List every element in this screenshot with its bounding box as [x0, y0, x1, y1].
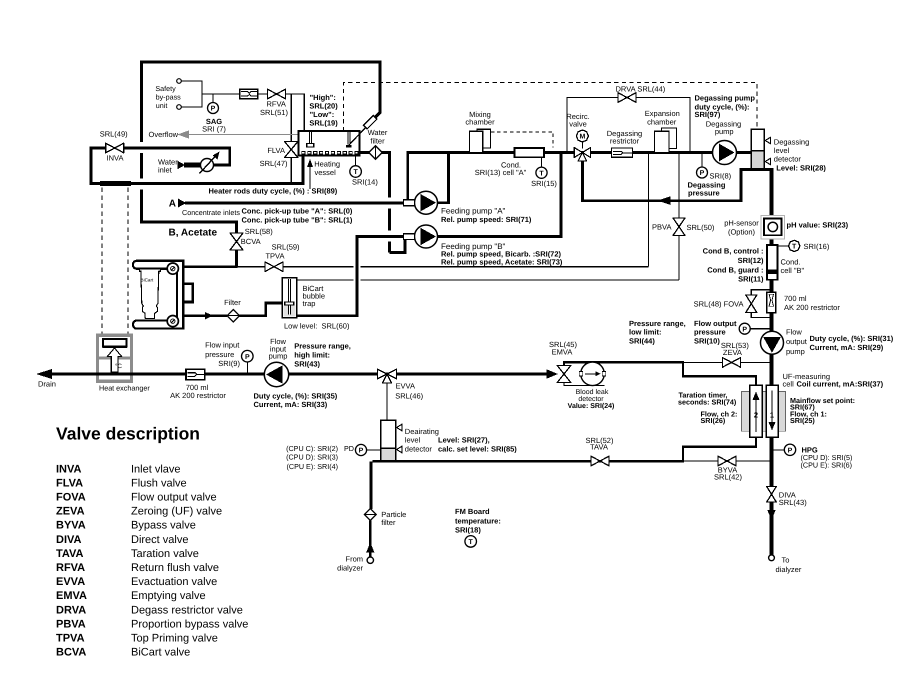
- svg-text:Rel. pump speed: SRI(71): Rel. pump speed: SRI(71): [441, 215, 532, 224]
- svg-text:EVVA: EVVA: [56, 576, 85, 588]
- label: duty cycle SRI(35) current SRI(33): [254, 392, 338, 409]
- restrictor (safety bypass): [240, 89, 258, 99]
- svg-text:Taration valve: Taration valve: [131, 548, 199, 560]
- dashed link lines to heat exchanger: [102, 188, 128, 335]
- svg-text:SRL(47): SRL(47): [260, 159, 288, 168]
- svg-text:Blood leak: Blood leak: [576, 388, 609, 396]
- svg-text:Valve description: Valve description: [56, 424, 200, 444]
- svg-text:TAVA: TAVA: [56, 548, 84, 560]
- water filter: [360, 128, 390, 159]
- svg-text:P: P: [788, 448, 793, 455]
- valve RFVA SRL(51): [260, 89, 288, 117]
- svg-text:detector: detector: [578, 395, 604, 403]
- svg-text:From: From: [346, 555, 364, 564]
- svg-text:Level: SRI(28): Level: SRI(28): [776, 164, 826, 173]
- svg-text:(CPU D): SRI(3): (CPU D): SRI(3): [286, 453, 338, 462]
- svg-text:2: 2: [754, 411, 758, 420]
- wire: water line down from filter with crossing gaps: [390, 151, 406, 252]
- svg-text:SRL(50): SRL(50): [687, 223, 715, 232]
- svg-text:pump: pump: [786, 347, 805, 356]
- svg-text:INVA: INVA: [56, 463, 82, 475]
- degassing restrictor: [607, 129, 642, 157]
- svg-text:DRVA: DRVA: [56, 604, 86, 616]
- svg-text:pump: pump: [715, 127, 734, 136]
- safety by-pass unit: [155, 79, 239, 110]
- wire: drain line (main bottom line): [36, 369, 547, 389]
- svg-text:INVA: INVA: [107, 153, 124, 162]
- svg-text:Bypass valve: Bypass valve: [131, 520, 196, 532]
- svg-text:level: level: [405, 436, 421, 445]
- svg-text:Cond B, guard :: Cond B, guard :: [707, 266, 763, 275]
- pump: flow input pump: [264, 337, 288, 386]
- svg-text:ZEVA: ZEVA: [56, 506, 85, 518]
- svg-text:chamber: chamber: [465, 117, 495, 126]
- restrictor 700 ml AK 200 (vertical): [767, 292, 840, 312]
- svg-text:TPVA: TPVA: [265, 252, 284, 261]
- wire: EMVA bottom to blood leak detector: [564, 383, 605, 386]
- svg-text:seconds: SRI(74): seconds: SRI(74): [678, 398, 737, 407]
- blood leak detector SRI(24): [568, 362, 615, 410]
- svg-text:SRL(58): SRL(58): [245, 227, 273, 236]
- svg-text:restrictor: restrictor: [610, 136, 640, 145]
- svg-text:PBVA: PBVA: [652, 222, 671, 231]
- wire: recirc valve down + return line with left arrow: [582, 161, 741, 205]
- filter (BiCart line): [224, 298, 241, 322]
- label: from dialyzer: [337, 555, 363, 573]
- svg-text:A: A: [169, 199, 176, 210]
- label: pressure range low limit SRI(44): [629, 319, 686, 345]
- label: High SRL(20) Low SRL(19): [309, 93, 338, 127]
- svg-text:Heat exchanger: Heat exchanger: [99, 383, 150, 392]
- svg-text:SRI(43): SRI(43): [294, 359, 320, 368]
- valve ZEVA SRL(53): [721, 341, 749, 367]
- wire: detector bottom manifold: [741, 168, 772, 171]
- label: conc pick-up tubes SRL(0) SRL(1): [242, 207, 353, 225]
- svg-text:700 ml: 700 ml: [784, 294, 807, 303]
- svg-text:P: P: [359, 448, 364, 455]
- svg-text:(Option): (Option): [728, 228, 756, 237]
- svg-text:P: P: [742, 326, 747, 333]
- wire: to dialyzer with arrow and end node: [767, 510, 802, 574]
- svg-text:Rel. pump speed, Acetate: SRI(: Rel. pump speed, Acetate: SRI(73): [441, 257, 563, 266]
- svg-text:detector: detector: [405, 445, 433, 454]
- svg-text:Flush valve: Flush valve: [131, 477, 187, 489]
- svg-text:pH-sensor: pH-sensor: [724, 218, 759, 227]
- svg-text:SRL(19): SRL(19): [309, 118, 338, 127]
- wire: main line from pump-A corner to degassing detector: [408, 153, 751, 201]
- svg-text:pH value: SRI(23): pH value: SRI(23): [787, 221, 849, 230]
- svg-text:Current, mA: SRI(29): Current, mA: SRI(29): [810, 343, 884, 352]
- svg-text:high limit:: high limit:: [294, 350, 330, 359]
- svg-text:SRI(18): SRI(18): [455, 525, 481, 534]
- svg-text:Low level: SRL(60): Low level: SRL(60): [284, 321, 350, 330]
- svg-text:T: T: [353, 169, 358, 176]
- svg-text:Heater rods duty cycle, (%) :: Heater rods duty cycle, (%) : SRI(89): [209, 186, 338, 195]
- mixing chamber: [465, 110, 495, 153]
- svg-text:Top Priming valve: Top Priming valve: [131, 633, 218, 645]
- pressure sensor HPG SRI(5)/SRI(6): [774, 444, 853, 469]
- valve EMVA SRL(45): [549, 340, 577, 383]
- svg-text:output: output: [786, 337, 808, 346]
- wire: INVA loop and water feed line to vessel: [91, 148, 303, 186]
- particle filter: [364, 509, 406, 528]
- heating vessel: [299, 115, 377, 189]
- wire: FLVA branch down from RFVA line: [290, 94, 292, 182]
- svg-text:Evactuation valve: Evactuation valve: [131, 576, 217, 588]
- wire: holder to BCVA drop (thick): [182, 265, 238, 268]
- svg-text:pressure: pressure: [688, 188, 720, 197]
- cond cell B SRI(12)/SRI(11): [703, 245, 805, 283]
- svg-text:calc. set level: SRI(85): calc. set level: SRI(85): [438, 445, 517, 454]
- wire: concentrate A line to feeding pump A: [185, 202, 404, 205]
- valve FOVA SRL(48): [694, 295, 757, 313]
- svg-text:detector: detector: [774, 155, 802, 164]
- svg-text:dialyzer: dialyzer: [337, 563, 363, 572]
- pressure sensor flow output SRI(10): [694, 319, 772, 345]
- BiCart bubble trap, SRL(60): [282, 278, 350, 331]
- wire: PBVA branch (main line to trap line): [678, 153, 680, 280]
- svg-text:Drain: Drain: [38, 380, 56, 389]
- svg-text:temperature:: temperature:: [455, 517, 501, 526]
- heat exchanger: [98, 335, 151, 392]
- recirc valve with motor M: [566, 112, 590, 161]
- svg-text:DRVA SRL(44): DRVA SRL(44): [616, 84, 666, 93]
- svg-text:SRI(9): SRI(9): [218, 359, 240, 368]
- svg-text:SRL(46): SRL(46): [395, 391, 423, 400]
- svg-text:pump: pump: [269, 351, 288, 360]
- wire: BYVA line to main vertical (thin): [683, 460, 772, 462]
- svg-text:cell "B": cell "B": [781, 266, 805, 275]
- valve INVA SRL(49): [100, 130, 128, 163]
- svg-text:SRL(43): SRL(43): [779, 498, 807, 507]
- pump: degassing pump SRI(97): [695, 94, 756, 165]
- svg-text:B, Acetate: B, Acetate: [169, 228, 218, 239]
- svg-text:Flow: Flow: [786, 328, 802, 337]
- wire: TAVA line from detector to junction x683: [396, 460, 684, 463]
- svg-text:(CPU C): SRI(2): (CPU C): SRI(2): [286, 444, 338, 453]
- dashed level-control line vessel to degassing detector: [344, 83, 758, 132]
- restrictor 700 ml AK 200 (drain line): [170, 369, 226, 400]
- wire: bubble trap top line to PBVA corner (thin, gap at x357): [297, 279, 680, 281]
- wire: FOVA bypass loop: [751, 290, 771, 318]
- svg-text:Cond B, control :: Cond B, control :: [703, 246, 764, 255]
- wire: main vertical (degassing detector to dialyzer): [770, 168, 774, 555]
- svg-text:chamber: chamber: [647, 118, 677, 127]
- svg-text:Return flush valve: Return flush valve: [131, 562, 219, 574]
- svg-text:pressure: pressure: [694, 328, 726, 337]
- wire: TPVA riser to main line: [648, 153, 650, 267]
- svg-text:DIVA: DIVA: [56, 534, 82, 546]
- UF measuring cell SRI(37): [678, 372, 884, 437]
- svg-text:AK 200 restrictor: AK 200 restrictor: [784, 303, 840, 312]
- svg-text:BiCart: BiCart: [141, 278, 154, 283]
- svg-text:(CPU E): SRI(6): (CPU E): SRI(6): [801, 460, 853, 469]
- wire: detector down to particle filter and from-dialyzer: [366, 461, 395, 563]
- svg-text:SRI(13) cell "A": SRI(13) cell "A": [475, 168, 527, 177]
- svg-text:Conc. pick-up tube "A": SRL(0): Conc. pick-up tube "A": SRL(0): [242, 207, 353, 216]
- svg-text:Zeroing (UF) valve: Zeroing (UF) valve: [131, 506, 222, 518]
- wire: EVVA-to-EMVA line arrow into EMVA: [547, 369, 559, 378]
- wire: EVVA to deairating detector: [386, 383, 388, 420]
- svg-text:Flow input: Flow input: [205, 341, 240, 350]
- pump: feeding pump A, SRI(71): [404, 153, 532, 224]
- svg-text:SRI(44): SRI(44): [629, 336, 655, 345]
- valve DIVA SRL(43): [767, 487, 808, 508]
- svg-text:P: P: [245, 354, 250, 361]
- svg-text:Overflow: Overflow: [149, 130, 179, 139]
- svg-text:PD: PD: [344, 444, 354, 453]
- svg-text:ZEVA: ZEVA: [723, 348, 742, 357]
- svg-text:Flow output valve: Flow output valve: [131, 492, 217, 504]
- svg-text:valve: valve: [569, 119, 587, 128]
- svg-text:P: P: [211, 106, 216, 113]
- expansion chamber: [645, 109, 680, 153]
- svg-text:Duty cycle, (%): SRI(31): Duty cycle, (%): SRI(31): [810, 334, 894, 343]
- svg-text:BCVA: BCVA: [241, 237, 261, 246]
- wire: holder bottom to filter to bubble trap: [182, 303, 282, 319]
- svg-text:To: To: [782, 555, 790, 564]
- temp sensor FM board SRI(18): [455, 507, 501, 547]
- svg-text:AK 200 restrictor: AK 200 restrictor: [170, 391, 226, 400]
- svg-text:Proportion bypass valve: Proportion bypass valve: [131, 618, 248, 630]
- pressure sensor SRI(8) degassing pressure: [688, 154, 732, 197]
- svg-text:Coil current, mA:SRI(37): Coil current, mA:SRI(37): [797, 379, 884, 388]
- label: pressure range high limit SRI(43): [294, 341, 351, 368]
- wire: DRVA bypass branch: [567, 98, 690, 153]
- deairating level detector: [381, 420, 518, 462]
- valve BCVA SRL(58): [230, 227, 273, 267]
- svg-text:BiCart valve: BiCart valve: [131, 647, 190, 659]
- svg-text:inlet: inlet: [158, 165, 173, 174]
- pressure sensor PD (CPU C/D/E): [286, 444, 381, 471]
- svg-text:TPVA: TPVA: [56, 633, 85, 645]
- BiCart holder: [133, 261, 193, 329]
- svg-text:Filter: Filter: [224, 298, 241, 307]
- svg-text:SRI(26): SRI(26): [701, 416, 726, 425]
- dashed assoc mixing chamber to cond cell A: [491, 132, 553, 148]
- svg-text:SRI(16): SRI(16): [804, 242, 830, 251]
- svg-text:T: T: [792, 244, 797, 251]
- svg-text:SRI(15): SRI(15): [531, 179, 557, 188]
- svg-text:EVVA: EVVA: [396, 382, 415, 391]
- valve EVVA SRL(46) (3-way): [378, 369, 424, 400]
- svg-text:cell: cell: [783, 379, 795, 388]
- svg-text:SRL(49): SRL(49): [100, 130, 128, 139]
- valve PBVA SRL(50): [652, 218, 715, 236]
- outer border top-left: [142, 60, 381, 223]
- cond cell A SRI(13): [475, 148, 544, 177]
- valve description list: [56, 424, 248, 659]
- svg-text:M: M: [579, 134, 585, 141]
- svg-text:SRI(97): SRI(97): [695, 110, 721, 119]
- svg-text:FM Board: FM Board: [455, 507, 490, 516]
- svg-text:Direct valve: Direct valve: [131, 534, 188, 546]
- svg-text:SRL(51): SRL(51): [260, 108, 288, 117]
- svg-text:SRL(42): SRL(42): [714, 473, 742, 482]
- wire: restrictor to RFVA to vessel: [258, 94, 305, 131]
- svg-text:vessel: vessel: [315, 168, 337, 177]
- node A: concentrate A arrow and label: [169, 199, 187, 210]
- svg-text:°C: °C: [115, 363, 122, 370]
- svg-text:BYVA: BYVA: [56, 520, 86, 532]
- svg-text:FOVA: FOVA: [56, 492, 86, 504]
- temp sensor SRI(16): [778, 240, 830, 251]
- svg-text:by-pass: by-pass: [156, 92, 182, 101]
- svg-text:SRI(10): SRI(10): [694, 336, 720, 345]
- valve TAVA SRL(52): [586, 436, 614, 466]
- svg-text:unit: unit: [156, 101, 168, 110]
- svg-text:Conc. pick-up tube "B": SRL(1): Conc. pick-up tube "B": SRL(1): [242, 216, 353, 225]
- svg-text:BCVA: BCVA: [56, 647, 86, 659]
- pump: feeding pump B, SRI(72)/SRI(73): [404, 153, 563, 267]
- svg-text:EMVA: EMVA: [56, 590, 87, 602]
- svg-text:T: T: [539, 170, 544, 177]
- svg-text:trap: trap: [303, 299, 316, 308]
- svg-text:TAVA: TAVA: [590, 443, 608, 452]
- water inlet regulator: [158, 152, 220, 175]
- svg-text:Pressure range,: Pressure range,: [294, 341, 351, 350]
- wire: ZEVA line (thin): [683, 361, 770, 363]
- svg-text:P: P: [700, 170, 705, 177]
- wire: taration channel loop (ch2): [683, 361, 756, 462]
- pressure sensor SAG SRI(7): [202, 94, 226, 133]
- svg-text:T: T: [469, 539, 474, 546]
- svg-text:PBVA: PBVA: [56, 618, 86, 630]
- temp sensor SRI(15): [531, 157, 557, 188]
- svg-text:Value: SRI(24): Value: SRI(24): [568, 402, 615, 410]
- svg-text:Current, mA: SRI(33): Current, mA: SRI(33): [254, 400, 328, 409]
- svg-text:FLVA: FLVA: [56, 477, 83, 489]
- svg-text:SRI (7): SRI (7): [202, 124, 226, 133]
- overflow line and arrow: [149, 130, 299, 139]
- svg-text:SRI(8): SRI(8): [710, 172, 732, 181]
- svg-text:EMVA: EMVA: [552, 347, 573, 356]
- valve BYVA SRL(42): [714, 456, 742, 482]
- svg-text:Emptying valve: Emptying valve: [131, 590, 206, 602]
- svg-text:FLVA: FLVA: [267, 146, 285, 155]
- valve FLVA SRL(47): [260, 142, 298, 168]
- wire: TPVA line (thin) with crossing gap: [237, 266, 649, 268]
- wire: bubble trap bottom to feeding pump B inlet (thick): [297, 237, 404, 316]
- pressure sensor flow input SRI(9): [205, 341, 253, 374]
- svg-text:Heating: Heating: [314, 159, 340, 168]
- svg-text:low limit:: low limit:: [629, 328, 662, 337]
- svg-text:SRL(48) FOVA: SRL(48) FOVA: [694, 299, 744, 308]
- valve TPVA SRL(59): [265, 242, 300, 271]
- pH sensor (option) SRI(23): [724, 216, 848, 239]
- svg-text:RFVA: RFVA: [56, 562, 85, 574]
- degassing level detector SRI(28): [751, 129, 826, 173]
- svg-text:Degass restrictor valve: Degass restrictor valve: [131, 604, 243, 616]
- wire: EMVA top line to junction x683 (thick): [564, 362, 683, 365]
- svg-text:SRL(59): SRL(59): [272, 242, 300, 251]
- svg-text:Concentrate inlets: Concentrate inlets: [182, 208, 240, 217]
- svg-text:Inlet vlave: Inlet vlave: [131, 463, 181, 475]
- pump: flow output pump: [761, 328, 894, 356]
- svg-text:(CPU E): SRI(4): (CPU E): SRI(4): [286, 462, 338, 471]
- temp sensor SRI(14): [350, 156, 379, 187]
- svg-text:1: 1: [770, 411, 774, 420]
- svg-text:SRI(11): SRI(11): [738, 274, 764, 283]
- svg-text:Degassing pump: Degassing pump: [695, 94, 756, 103]
- valve DRVA SRL(44): [616, 84, 666, 102]
- svg-text:filter: filter: [370, 137, 385, 146]
- wire: B concentrate line from border corner to BCVA: [140, 199, 237, 233]
- svg-text:SRI(12): SRI(12): [738, 256, 764, 265]
- svg-text:Level: SRI(27),: Level: SRI(27),: [438, 436, 490, 445]
- svg-text:SRI(14): SRI(14): [352, 177, 378, 186]
- svg-text:dialyzer: dialyzer: [776, 565, 802, 574]
- svg-text:SRI(25): SRI(25): [790, 416, 815, 425]
- svg-text:filter: filter: [381, 518, 396, 527]
